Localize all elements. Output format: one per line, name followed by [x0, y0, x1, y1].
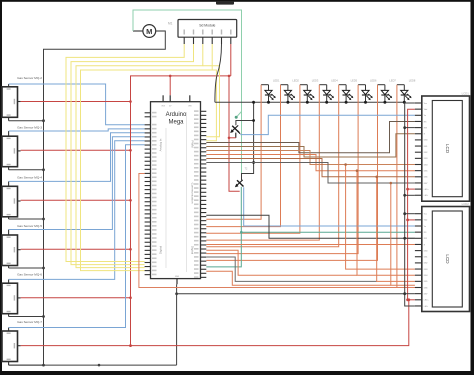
node sensor6 gnd junction [42, 364, 45, 367]
node 5V arduino junction [169, 75, 172, 78]
wire data bus branch LCD1-LCD2 DB4 [346, 165, 415, 270]
wire SD yellow right branch 2 [206, 70, 216, 141]
wire SD GND dark [215, 44, 222, 102]
wire 5V red bus vertical [131, 76, 231, 346]
gas sensor MQ4 [2, 224, 42, 268]
wire Q1 emitter stub [235, 133, 237, 138]
LED LED4 [319, 79, 338, 103]
wire sensor1 VCC red [21, 101, 131, 103]
svg-text:DB6: DB6 [424, 287, 428, 289]
wire motor return to ground bus [44, 31, 166, 365]
wire brown bundle to LCD1 RS [206, 122, 415, 153]
wire LCD1 LEDK row [405, 194, 415, 196]
wire data bus branch LCD1-LCD2 DB6 [377, 177, 415, 282]
node sensor3 gnd junction [42, 218, 45, 221]
node LCD red junctions [406, 188, 409, 191]
gas sensor MQ2 [2, 125, 42, 169]
wire Arduino GND down [176, 284, 178, 365]
svg-text:Analog In: Analog In [159, 138, 163, 151]
wire LED6 orange to Arduino [206, 85, 358, 254]
wire green motor to transistor Q2 [133, 10, 242, 179]
svg-text:Communication: Communication [191, 183, 195, 204]
wire red Q1 emitter link [229, 137, 236, 139]
node LED6 cathode junction [364, 101, 367, 104]
wire red to transistors [229, 76, 240, 191]
svg-text:GND: GND [175, 276, 180, 278]
wire orange Arduino to LCD2 DB5 [206, 250, 357, 275]
node LCD gnd junctions [403, 126, 406, 129]
wire sensor2 VCC red [21, 149, 131, 151]
transistor Q1 [230, 125, 240, 133]
svg-text:DB7: DB7 [424, 293, 428, 295]
node red bus junction [129, 149, 132, 152]
node red bus junction [129, 100, 132, 103]
LED anode bus dark [215, 101, 405, 103]
node red bus junction [129, 296, 132, 299]
wire LED3 orange to Arduino [206, 85, 300, 234]
node LED2 cathode junction [286, 101, 289, 104]
wire sensor6 ground [9, 364, 44, 366]
node red bottom corner junction [407, 298, 410, 301]
wire sensor1 signal blue [9, 84, 145, 125]
svg-text:DB1: DB1 [424, 146, 428, 148]
LED LED7 [378, 79, 397, 103]
svg-text:LED-: LED- [424, 195, 429, 197]
svg-text:Arduino: Arduino [166, 112, 187, 118]
wire LCD2 Vdd row [408, 219, 415, 221]
wire orange Arduino to LCD2 DB7 [206, 271, 390, 285]
ground wire to LCDs [177, 293, 405, 295]
node LED7 cathode junction [383, 101, 386, 104]
LED LED1 [261, 79, 280, 103]
svg-text:DB3: DB3 [424, 158, 428, 160]
node red bus bottom junction [129, 344, 132, 347]
svg-text:LED4: LED4 [331, 79, 338, 83]
svg-text:Gas Sensor MQ-7: Gas Sensor MQ-7 [17, 320, 42, 324]
LED LED3 [300, 79, 319, 103]
svg-text:Mega: Mega [168, 120, 184, 126]
wire dark Arduino to LCD2 DB6 [206, 257, 376, 281]
svg-text:DB5: DB5 [424, 170, 428, 172]
Arduino Mega U1 [145, 95, 207, 284]
svg-text:Vo: Vo [424, 115, 426, 117]
wire sensor6 VCC red [21, 300, 409, 346]
svg-text:DB0: DB0 [424, 140, 428, 142]
node red bus junction [129, 199, 132, 202]
LCD LCD1 [415, 92, 470, 202]
svg-text:Vdd: Vdd [424, 220, 427, 222]
svg-text:DB5: DB5 [424, 281, 428, 283]
wire LCD power red vertical [408, 109, 415, 300]
LED LED2 [281, 79, 300, 103]
LED LED5 [339, 79, 358, 103]
wire sensor1 ground [9, 120, 44, 122]
svg-text:RW: RW [424, 238, 427, 240]
wire bundle DB7 [206, 163, 415, 184]
transistor Q2 [235, 168, 248, 188]
wire teal branch LCD2 RS [241, 231, 415, 233]
wire data bus branch LCD1-LCD2 DB7 [391, 183, 415, 285]
wire sensor6 signal blue [9, 145, 145, 328]
node teal branch junction [240, 231, 243, 234]
svg-text:Digital: Digital [159, 246, 163, 255]
wire Q2 emitter teal to LCD2 [206, 187, 241, 267]
svg-text:LED2: LED2 [292, 79, 299, 83]
wire blue Arduino to LCD1 RS [240, 115, 415, 134]
motor M1 [133, 22, 173, 38]
svg-text:LED5: LED5 [351, 79, 358, 83]
wire sensor4 signal blue [9, 137, 145, 230]
node LED1 cathode junction [267, 101, 270, 104]
wire blue Q2 to LCD2 [244, 187, 415, 226]
svg-text:DB0: DB0 [424, 250, 428, 252]
svg-text:LED-: LED- [424, 306, 429, 308]
wire Q1 collector dark [236, 121, 254, 126]
wire sensor4 VCC red [21, 248, 131, 250]
svg-text:DB1: DB1 [424, 257, 428, 259]
wire LED8 orange to Arduino [397, 85, 415, 288]
svg-text:DB4: DB4 [424, 164, 428, 166]
LED LED6 [358, 79, 377, 103]
node LED5 cathode junction [345, 101, 348, 104]
wire SD MOSI yellow [76, 44, 203, 268]
gas sensor MQ5 [2, 272, 42, 316]
node ground bus junction [98, 364, 101, 367]
svg-text:DB4: DB4 [424, 275, 428, 277]
svg-text:Gas Sensor MQ-2: Gas Sensor MQ-2 [17, 76, 42, 80]
ground bus bottom wire [9, 364, 177, 366]
gas sensor MQ3 [2, 176, 42, 220]
svg-text:Vo: Vo [424, 226, 426, 228]
wire sensor3 signal blue [9, 133, 145, 182]
node LED8 cathode junction [403, 101, 406, 104]
wire sensor5 VCC red [21, 297, 131, 299]
node red transistor junction [228, 75, 231, 78]
wire LCD2 Vss row [405, 213, 415, 215]
svg-text:Sd Module: Sd Module [199, 23, 215, 27]
wire sensor2 ground [9, 169, 44, 171]
wire LCD ground dark vertical [405, 102, 415, 306]
svg-text:Gas Sensor MQ-5: Gas Sensor MQ-5 [17, 224, 42, 228]
svg-text:Digital: Digital [191, 246, 195, 255]
svg-text:LED1: LED1 [273, 79, 280, 83]
wire SD SCK yellow [71, 44, 194, 265]
wire bundle DB5 [206, 155, 415, 171]
wire sensor4 ground [9, 267, 44, 269]
svg-text:DB2: DB2 [424, 263, 428, 265]
LCD LCD2 [415, 202, 470, 312]
svg-text:DB2: DB2 [424, 152, 428, 154]
wire orange Arduino to LCD2 E [206, 244, 415, 246]
node sensor2 gnd junction [42, 168, 45, 171]
node GND branch [175, 292, 178, 295]
wire LCD2 RW row [405, 237, 415, 239]
wire sensor5 ground [9, 316, 44, 318]
svg-text:Vss: Vss [424, 103, 427, 105]
wire LED2 orange to Arduino [206, 85, 280, 227]
node sensor4 gnd junction [42, 267, 45, 270]
wire bundle DB4 [206, 151, 415, 165]
wire bundle DB6 [206, 159, 415, 177]
svg-text:RW: RW [424, 127, 427, 129]
wire data bus branch LCD1-LCD2 DB5 [357, 171, 415, 276]
svg-text:DB3: DB3 [424, 269, 428, 271]
node LED bus junction [252, 101, 255, 104]
node LED4 cathode junction [325, 101, 328, 104]
wire orange left-pin to LCD2 DB7 [139, 174, 415, 288]
svg-text:Vdd: Vdd [424, 109, 427, 111]
node sensor1 gnd junction [42, 119, 45, 122]
svg-text:LCD1: LCD1 [462, 92, 470, 96]
svg-text:LED6: LED6 [370, 79, 377, 83]
svg-text:LED3: LED3 [312, 79, 319, 83]
wire LCD2 gnd row14 [405, 293, 415, 295]
wire LCD1 Vss row [405, 102, 415, 104]
svg-text:M1: M1 [168, 22, 173, 26]
wire brown bundle to LCD1 E [206, 134, 415, 157]
gas sensor MQ6 [2, 320, 42, 365]
node LED3 cathode junction [306, 101, 309, 104]
wire LED4 orange to Arduino [206, 85, 319, 240]
wire 5V to SD module [230, 44, 232, 76]
wire sensor5 signal blue [9, 141, 145, 280]
wire LED1 orange to Arduino [206, 85, 261, 220]
svg-text:DB6: DB6 [424, 177, 428, 179]
svg-text:Vss: Vss [424, 214, 427, 216]
wire 5V to Arduino [169, 76, 171, 95]
wire green branch to Q1 gate [236, 112, 241, 118]
wire LED7 orange to Arduino [206, 85, 377, 261]
svg-text:LED7: LED7 [389, 79, 396, 83]
wire Q2 collector dark from LED bus [242, 102, 254, 180]
wire sensor2 signal blue [9, 129, 145, 131]
wire LCD1 RW row [405, 127, 415, 129]
wire LED5 orange to Arduino [206, 85, 338, 247]
node red bus junction [129, 248, 132, 251]
svg-text:LCD: LCD [445, 254, 450, 264]
wire sensor3 ground [9, 218, 44, 220]
svg-text:LCD2: LCD2 [462, 202, 470, 206]
wire dark Arduino to LCD2 RW [206, 215, 415, 238]
svg-text:PWM: PWM [191, 140, 195, 148]
node green Q1 gate [235, 116, 238, 119]
wire SD yellow right branch 1 [203, 66, 220, 137]
SD module U2 [178, 20, 237, 45]
node sensor5 gnd junction [42, 315, 45, 318]
svg-text:LCD: LCD [445, 144, 450, 154]
svg-text:M: M [146, 27, 152, 36]
svg-text:Gas Sensor MQ-4: Gas Sensor MQ-4 [17, 176, 42, 180]
wire SD CS yellow [66, 44, 184, 262]
wire LCD2 LEDA row [408, 299, 415, 301]
LED LED8 [397, 79, 416, 103]
svg-text:3V3: 3V3 [161, 106, 164, 108]
wire SD MISO yellow [81, 44, 213, 271]
svg-text:Gas Sensor MQ-3: Gas Sensor MQ-3 [17, 125, 42, 129]
svg-text:DB7: DB7 [424, 183, 428, 185]
svg-text:Gas Sensor MQ-6: Gas Sensor MQ-6 [17, 272, 42, 276]
wire LCD1 LEDA row [408, 188, 415, 190]
gas sensor MQ1 [2, 76, 42, 121]
wire sensor3 VCC red [21, 199, 131, 201]
svg-text:LED8: LED8 [409, 79, 416, 83]
